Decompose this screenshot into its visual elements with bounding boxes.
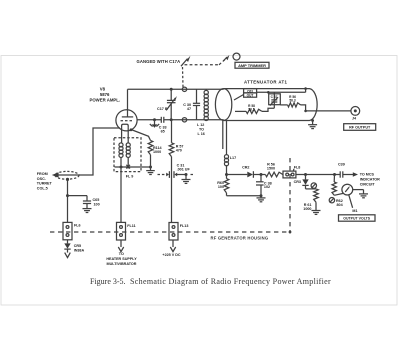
svg-text:56.5: 56.5 xyxy=(248,108,254,112)
svg-text:1000: 1000 xyxy=(153,150,161,154)
svg-text:100: 100 xyxy=(94,203,100,207)
svg-text:FL11: FL11 xyxy=(127,224,135,228)
svg-text:65: 65 xyxy=(161,129,165,133)
svg-text:CR3: CR3 xyxy=(294,180,301,184)
svg-text:ATTENUATOR AT1: ATTENUATOR AT1 xyxy=(244,80,288,85)
svg-text:L17: L17 xyxy=(230,156,236,160)
svg-text:COL.5: COL.5 xyxy=(37,187,48,191)
svg-text:FL8: FL8 xyxy=(294,165,301,169)
svg-text:Schematic Diagram of Radio Fre: Schematic Diagram of Radio Frequency Pow… xyxy=(130,277,331,286)
svg-text:L 16: L 16 xyxy=(198,132,205,136)
svg-text:L 12: L 12 xyxy=(197,123,204,127)
svg-text:CIRCUIT: CIRCUIT xyxy=(360,183,376,187)
svg-text:100: 100 xyxy=(218,185,224,189)
svg-text:FROM: FROM xyxy=(37,172,48,176)
svg-text:INDICATOR: INDICATOR xyxy=(360,178,380,182)
svg-text:CR5: CR5 xyxy=(74,244,81,248)
svg-text:POWER AMPL.: POWER AMPL. xyxy=(89,98,120,103)
svg-text:804: 804 xyxy=(337,203,344,207)
svg-text:RF GENERATOR HOUSING: RF GENERATOR HOUSING xyxy=(211,236,269,241)
svg-text:FL6: FL6 xyxy=(74,224,81,228)
svg-text:TO MCS: TO MCS xyxy=(360,172,375,176)
svg-text:C65: C65 xyxy=(93,198,100,202)
svg-text:OUTPUT VOLTS: OUTPUT VOLTS xyxy=(343,217,370,221)
svg-text:+225 V DC: +225 V DC xyxy=(162,253,180,257)
svg-text:OSC.: OSC. xyxy=(37,177,46,181)
svg-text:C17 B: C17 B xyxy=(157,107,168,111)
svg-text:V8: V8 xyxy=(100,86,106,91)
svg-text:C39: C39 xyxy=(338,162,345,166)
svg-text:.001 UF: .001 UF xyxy=(177,167,191,171)
svg-text:47: 47 xyxy=(187,107,191,111)
svg-text:AMP TRIMMER: AMP TRIMMER xyxy=(238,63,266,68)
svg-text:TO: TO xyxy=(119,252,124,256)
svg-text:CR2: CR2 xyxy=(242,166,249,170)
svg-text:FL13: FL13 xyxy=(180,224,189,228)
svg-text:Figure 3-5.: Figure 3-5. xyxy=(90,277,126,286)
svg-text:HEATER SUPPLY: HEATER SUPPLY xyxy=(106,257,137,261)
svg-text:IN38A: IN38A xyxy=(74,248,85,252)
svg-text:RF OUTPUT: RF OUTPUT xyxy=(349,126,371,130)
svg-text:5876: 5876 xyxy=(100,92,110,97)
svg-text:MULTIVIBRATOR: MULTIVIBRATOR xyxy=(107,262,137,266)
svg-text:TO: TO xyxy=(199,128,204,132)
svg-text:GANGED WITH C17A: GANGED WITH C17A xyxy=(137,59,181,64)
svg-text:TURRET: TURRET xyxy=(37,182,53,186)
svg-text:M1: M1 xyxy=(352,209,357,213)
svg-text:56.3: 56.3 xyxy=(289,98,295,102)
svg-text:OUT: OUT xyxy=(247,94,254,98)
svg-text:470: 470 xyxy=(176,149,182,153)
svg-text:102: 102 xyxy=(264,185,270,189)
svg-text:1500: 1500 xyxy=(267,166,275,170)
svg-text:FL 9: FL 9 xyxy=(126,175,134,179)
svg-text:1000: 1000 xyxy=(303,207,311,211)
